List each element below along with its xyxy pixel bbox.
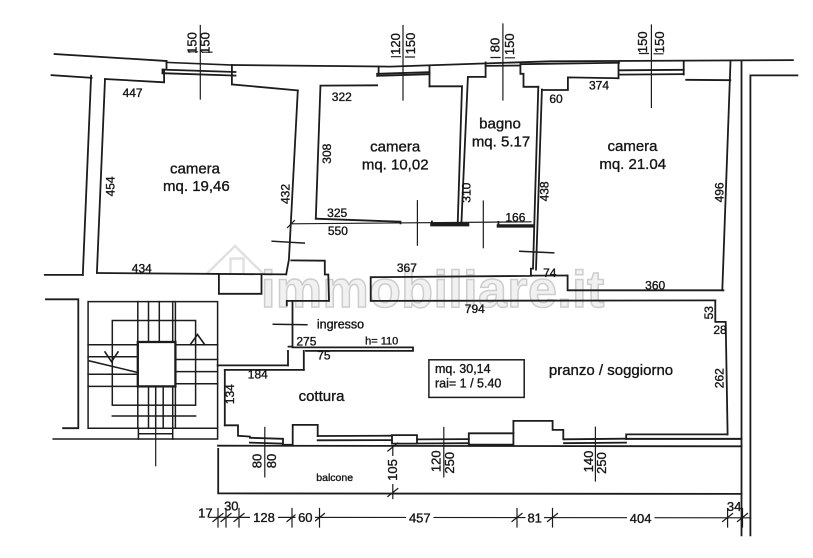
- wall pillar cottura: [283, 425, 318, 445]
- svg-text:325: 325: [327, 206, 347, 220]
- tick 550 left: [288, 221, 295, 228]
- svg-text:128: 128: [253, 510, 275, 525]
- wall top-left outer: [55, 54, 167, 61]
- staircase arrowhead down: [105, 352, 118, 362]
- window W3 glazing: [486, 65, 520, 67]
- staircase top flight verticals: [149, 302, 173, 342]
- svg-text:bagno: bagno: [479, 116, 521, 133]
- svg-text:310: 310: [460, 182, 474, 202]
- wall camera3 bottom outer: [568, 276, 724, 291]
- staircase window: [138, 428, 172, 439]
- dimension chain bottom line: [210, 516, 751, 519]
- wall top inner left: [52, 75, 92, 78]
- staircase arrow diagonal: [89, 361, 136, 372]
- svg-text:438: 438: [538, 181, 552, 201]
- svg-text:80: 80: [488, 38, 503, 52]
- window W6 120: [417, 439, 469, 443]
- window W1 jamb right: [231, 65, 233, 84]
- staircase core: [138, 342, 176, 386]
- svg-text:ingresso: ingresso: [317, 317, 364, 331]
- svg-text:150: 150: [635, 31, 650, 53]
- wall pranzo south inner: [626, 434, 727, 439]
- wall camera1 top inner right: [232, 84, 298, 90]
- chain ticks: [213, 509, 223, 528]
- dim line 80/150: [491, 24, 514, 100]
- wall bagno/camera3 left line: [533, 87, 538, 269]
- svg-text:balcone: balcone: [316, 472, 353, 484]
- svg-text:mq. 5.17: mq. 5.17: [472, 134, 530, 151]
- wall bagno/camera3 right line: [536, 90, 542, 270]
- staircase left steps: [88, 345, 138, 387]
- svg-text:454: 454: [104, 176, 118, 196]
- wall camera1 left inner: [97, 79, 105, 273]
- wall line under outer 374: [520, 63, 619, 64]
- svg-text:60: 60: [549, 92, 563, 106]
- dim line 120/250: [443, 428, 445, 477]
- staircase inner ring rect: [112, 321, 195, 406]
- entry door jambs: [219, 274, 262, 294]
- svg-text:308: 308: [320, 143, 334, 163]
- wall cottura south-west steps: [225, 425, 250, 436]
- svg-text:h= 110: h= 110: [365, 335, 398, 347]
- wall cottura left: [224, 370, 226, 425]
- window W4 jamb right: [683, 61, 685, 75]
- svg-text:275: 275: [296, 334, 316, 348]
- wall camera2 bottom: [316, 219, 401, 224]
- wall camera1 top inner: [105, 70, 164, 83]
- svg-text:camera: camera: [607, 138, 658, 155]
- wall camera2 top inner: [320, 84, 377, 86]
- dim line 140/250: [594, 427, 596, 481]
- wall pranzo north-east steps: [715, 300, 727, 434]
- wall cottura south pair: [318, 436, 392, 441]
- wall h110 low: [293, 347, 414, 351]
- wall camera3 right inner: [722, 62, 730, 291]
- svg-text:17: 17: [198, 505, 212, 520]
- wall bagno bottom left bar: [432, 223, 468, 226]
- door tick camera3: [520, 251, 554, 253]
- window W1 glazing: [163, 70, 236, 76]
- svg-text:mq. 30,14: mq. 30,14: [435, 362, 491, 376]
- svg-text:794: 794: [465, 302, 485, 316]
- svg-text:150: 150: [652, 31, 667, 53]
- staircase bottom flight verticals: [149, 386, 173, 428]
- svg-text:250: 250: [442, 452, 457, 474]
- wall pranzo north left piece: [287, 260, 329, 305]
- wall camera2/bagno left line: [458, 86, 462, 224]
- svg-text:150: 150: [403, 33, 418, 55]
- svg-text:404: 404: [630, 511, 652, 526]
- wall camera1/camera2 right line: [316, 87, 321, 219]
- wall camera3 top inner right: [686, 79, 730, 81]
- wall raised pillar: [513, 421, 563, 439]
- svg-text:cottura: cottura: [299, 388, 346, 405]
- svg-text:mq. 19,46: mq. 19,46: [163, 178, 230, 195]
- balcone edge: [218, 449, 741, 494]
- wall outer right pair: [742, 62, 751, 536]
- dimension line 550: [291, 222, 531, 224]
- svg-text:80: 80: [264, 454, 279, 468]
- svg-text:mq. 10,02: mq. 10,02: [362, 156, 429, 173]
- svg-text:367: 367: [397, 261, 417, 275]
- svg-text:60: 60: [298, 510, 312, 525]
- dim line 80/80 cottura: [264, 427, 266, 477]
- wall bagno bottom right bar: [498, 224, 533, 227]
- wall top outer middle: [232, 60, 793, 67]
- dim line 120/150: [392, 26, 415, 101]
- svg-text:134: 134: [223, 384, 237, 404]
- svg-text:184: 184: [248, 368, 268, 382]
- watermark immobiliare.it: [208, 246, 605, 319]
- svg-text:camera: camera: [170, 161, 221, 178]
- svg-text:rai= 1 / 5.40: rai= 1 / 5.40: [435, 376, 501, 390]
- mq box: [429, 360, 524, 398]
- dim line 105 balcone: [388, 443, 398, 499]
- staircase lower landing line: [112, 415, 195, 417]
- wall stair top stub: [46, 299, 78, 428]
- wall stub left: [45, 274, 83, 276]
- svg-text:mq. 21.04: mq. 21.04: [599, 156, 666, 173]
- svg-text:322: 322: [332, 90, 352, 104]
- svg-text:120: 120: [388, 33, 403, 55]
- dim line 150/150 left: [189, 26, 213, 100]
- dim text 105 rotated: [387, 456, 399, 484]
- svg-text:30: 30: [224, 498, 238, 513]
- window W2 camera2 jambs: [379, 66, 430, 86]
- wall pranzo north right: [371, 299, 715, 302]
- wall top right inner: [750, 74, 797, 76]
- svg-text:150: 150: [502, 33, 517, 55]
- wall camera2 top-right inner: [430, 85, 463, 87]
- svg-text:74: 74: [543, 266, 557, 280]
- door tick ingresso: [273, 323, 307, 325]
- wall camera1 left outer: [83, 76, 91, 275]
- svg-text:447: 447: [123, 86, 143, 100]
- dim line door bagno: [482, 201, 484, 248]
- window W3 jamb right steps: [520, 63, 538, 87]
- svg-text:pranzo / soggiorno: pranzo / soggiorno: [549, 362, 673, 379]
- wall block1: [392, 435, 417, 444]
- window W4 glazing: [620, 70, 684, 75]
- wall h110 step verticals: [288, 351, 304, 370]
- window W1 camera1 jamb left: [163, 61, 167, 73]
- svg-text:105: 105: [385, 459, 400, 481]
- window W3 bagno jamb left: [485, 63, 487, 77]
- svg-text:550: 550: [328, 224, 348, 238]
- svg-text:262: 262: [712, 368, 726, 388]
- svg-text:53: 53: [702, 306, 716, 320]
- wall south outer line: [218, 445, 742, 448]
- wall camera2/bagno right line: [461, 77, 468, 223]
- window W1 top line: [166, 62, 232, 65]
- svg-text:374: 374: [589, 79, 609, 93]
- staircase box: [53, 302, 217, 439]
- staircase arrowhead up: [190, 335, 205, 345]
- wall camera1 bottom: [97, 273, 286, 274]
- svg-text:434: 434: [132, 262, 152, 276]
- door tick camera1: [272, 241, 304, 243]
- svg-text:432: 432: [279, 184, 293, 204]
- svg-text:457: 457: [409, 510, 431, 525]
- svg-text:81: 81: [527, 510, 541, 525]
- wall block2: [469, 433, 514, 444]
- window W4 camera3 jamb left: [618, 62, 620, 78]
- wall corridor south top edge: [371, 276, 568, 301]
- window W2 glazing: [377, 72, 429, 76]
- svg-text:camera: camera: [370, 138, 421, 155]
- wall bagno/camera3 bottom jog: [531, 269, 533, 276]
- svg-text:150: 150: [198, 32, 213, 54]
- svg-text:166: 166: [505, 211, 525, 225]
- svg-text:250: 250: [594, 452, 609, 474]
- staircase window dim line: [155, 428, 157, 466]
- svg-text:34: 34: [727, 499, 741, 514]
- wall 184 pair: [218, 365, 304, 370]
- svg-text:75: 75: [317, 349, 331, 363]
- wall pranzo south band: [626, 438, 741, 440]
- wall bagno top inner: [468, 76, 486, 78]
- white gaps for chain numbers: [250, 511, 278, 524]
- wall camera1/camera2 left line: [286, 90, 298, 274]
- window W7 140: [564, 439, 626, 444]
- svg-text:496: 496: [712, 182, 726, 202]
- staircase right steps: [175, 345, 217, 384]
- window W5 cottura 80: [250, 438, 283, 445]
- dim line door camera2: [416, 201, 418, 246]
- svg-text:360: 360: [645, 279, 665, 293]
- staircase core column lines: [138, 302, 176, 429]
- wall ingresso left: [289, 301, 293, 347]
- svg-text:80: 80: [249, 454, 264, 468]
- dim line 150/150 right: [640, 25, 664, 107]
- wall camera3 top inner: [542, 77, 619, 90]
- svg-text:28: 28: [713, 323, 727, 337]
